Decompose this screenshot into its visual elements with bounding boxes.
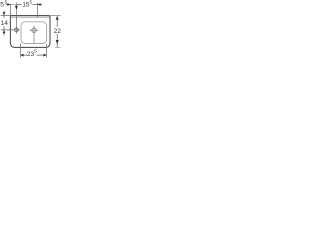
svg-text:5: 5 bbox=[0, 2, 4, 9]
left dimension 14 vertical line bbox=[3, 11, 5, 18]
top dimension line 15.5 left part bbox=[17, 4, 22, 6]
right dim extension bottom bbox=[55, 46, 61, 48]
drain horizontal centerline bbox=[29, 29, 38, 31]
tap hole circle bbox=[15, 28, 19, 32]
bottom dim extension right bbox=[46, 44, 48, 58]
top dimension line 15.5 right part bbox=[32, 4, 42, 6]
bottom dim extension left bbox=[19, 44, 21, 58]
left dim up-arrow at bottom bbox=[3, 30, 6, 33]
svg-text:5: 5 bbox=[5, 0, 8, 5]
svg-text:22: 22 bbox=[54, 28, 62, 35]
arrow left at x37.6 bbox=[38, 3, 41, 6]
svg-text:5: 5 bbox=[34, 48, 37, 53]
drain vertical centerline bbox=[33, 26, 35, 44]
right dim extension top bbox=[50, 15, 61, 17]
right dim up-arrow bbox=[56, 16, 59, 20]
top dimension line 5.5 bbox=[6, 4, 11, 6]
right dim down-arrow bbox=[56, 40, 59, 44]
svg-text:14: 14 bbox=[1, 20, 9, 27]
svg-text:5: 5 bbox=[30, 0, 33, 5]
tap centerline down-arrow bbox=[15, 6, 18, 10]
left dim down-arrow at top bbox=[3, 12, 6, 15]
bottom dim left arrow bbox=[21, 54, 24, 57]
bowl rounded rectangle bbox=[21, 22, 47, 44]
left edge vertical extension for top dim bbox=[9, 4, 11, 16]
arrow right at x10.4 bbox=[7, 3, 10, 6]
tap hole vertical centerline bbox=[15, 3, 17, 34]
right dimension 22 vertical line bbox=[56, 16, 58, 27]
tap hole horizontal centerline bbox=[1, 29, 20, 31]
top-left edge extension line bbox=[1, 15, 11, 17]
bottom dim right arrow bbox=[44, 54, 47, 57]
drain circle bbox=[32, 28, 36, 32]
basin outer outline bbox=[10, 16, 50, 48]
extension line x37.6 for top dim bbox=[37, 3, 39, 17]
bottom dimension line 23.5 bbox=[20, 54, 27, 56]
rim inner line bbox=[11, 16, 50, 18]
